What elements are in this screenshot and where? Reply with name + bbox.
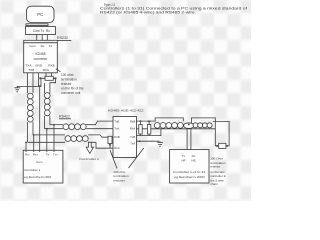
svg-text:HE: HE [191,159,195,163]
svg-text:resistors: resistors [113,179,125,183]
svg-text:KD485-ADE-422-422: KD485-ADE-422-422 [108,109,144,113]
svg-text:Tx-: Tx- [46,153,50,157]
svg-text:100 ohm: 100 ohm [61,73,74,77]
svg-text:Com: Com [36,160,43,164]
svg-text:Tx: Tx [49,44,53,48]
svg-text:Controller 1: Controller 1 [24,168,40,172]
svg-text:Tx+: Tx+ [53,153,58,157]
svg-text:Rx: Rx [192,154,196,158]
svg-text:RS422 (or RS485 4-wire) and RS: RS422 (or RS485 4-wire) and RS485 2-wire… [100,11,196,15]
svg-text:resistor: resistor [61,82,72,86]
svg-text:Rx-: Rx- [25,153,30,157]
svg-text:eg Eurotherm 2000: eg Eurotherm 2000 [174,175,205,179]
svg-text:Tx: Tx [40,29,44,33]
svg-text:Rx: Rx [46,29,50,33]
svg-text:Controller n: Controller n [79,157,99,161]
svg-text:HF: HF [182,159,186,163]
svg-text:TXB: TXB [28,68,34,72]
svg-text:Rx+: Rx+ [33,153,39,157]
svg-text:PC: PC [37,12,43,17]
svg-text:TxA: TxA [130,142,135,146]
svg-text:Com: Com [33,29,40,33]
svg-text:Rx: Rx [41,44,45,48]
svg-text:GND: GND [35,64,43,68]
svg-text:on the Rx of the: on the Rx of the [61,86,84,90]
svg-text:RXB: RXB [48,64,54,68]
svg-text:TxB: TxB [130,135,135,139]
svg-text:termination: termination [61,77,77,81]
svg-text:KD485: KD485 [35,52,45,56]
svg-text:Tx: Tx [182,154,186,158]
svg-text:RxB: RxB [130,119,136,123]
svg-text:RxA: RxA [130,127,136,131]
svg-text:resistor: resistor [210,164,220,168]
svg-text:RxA: RxA [114,146,120,150]
svg-text:RS422: RS422 [59,115,70,119]
svg-text:RxB: RxB [114,135,120,139]
svg-text:Com: Com [29,44,36,48]
svg-text:converter unit: converter unit [61,91,80,95]
svg-text:chain: chain [210,182,218,186]
svg-text:eg Eurotherm 900: eg Eurotherm 900 [24,175,51,179]
svg-text:termination: termination [113,174,129,178]
svg-text:RXA: RXA [43,68,50,72]
svg-text:TxA: TxA [114,127,119,131]
svg-text:TxB: TxB [114,119,119,123]
svg-text:Controller n+1 to 31: Controller n+1 to 31 [173,170,206,174]
svg-text:converter: converter [34,57,49,61]
svg-text:RS232: RS232 [57,36,68,40]
